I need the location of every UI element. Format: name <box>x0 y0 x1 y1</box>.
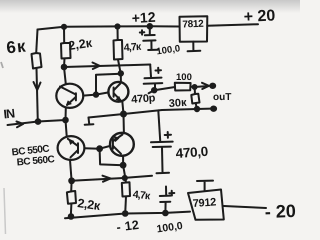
plus sign C1 <box>140 30 145 34</box>
regulator U1 7812 box <box>180 16 208 42</box>
wire OUT bottom line <box>89 109 212 118</box>
wire Q2 bottom lead <box>122 101 123 114</box>
wire IN lead <box>8 120 66 125</box>
svg-text:100,0: 100,0 <box>156 220 184 234</box>
regulator U2 7912 box <box>188 190 224 220</box>
wire node B to resistor 100 <box>154 87 175 90</box>
plus sign C3 <box>165 132 171 138</box>
hook stub left end <box>85 118 94 125</box>
wire Q1 bottom lead <box>65 108 67 120</box>
node 2.2K top on rail <box>62 25 66 29</box>
arrow right at OUT top <box>202 83 209 89</box>
node Q2/Q4 junction <box>121 112 126 117</box>
transistor Q3 circle <box>58 136 85 160</box>
svg-text:+12: +12 <box>131 9 156 26</box>
node A junction <box>62 65 67 70</box>
svg-text:4,7к: 4,7к <box>123 41 142 54</box>
transistor Q2 internals <box>114 84 121 91</box>
wire 100 to out node with arrow <box>191 86 195 88</box>
svg-text:+ 20: + 20 <box>243 7 276 26</box>
transistor Q4 internals <box>113 135 122 142</box>
wire Q3 bottom lead <box>70 160 72 181</box>
wire C2 bottom to node B <box>149 84 155 93</box>
wire rail B bottom <box>65 212 190 219</box>
capacitor C4 100,0 stub top <box>165 187 167 196</box>
resistor R5 2.2K bottom box <box>67 191 76 204</box>
wire -20 output <box>224 206 266 208</box>
resistor R6 4.7K bottom box <box>122 182 130 196</box>
wire node C folded down-right to Q4 emitter <box>100 149 123 166</box>
transistor Q2 circle <box>108 82 128 102</box>
arrow down on 6K wire <box>34 82 41 90</box>
wire C3 bottom lead with end bar <box>157 148 170 174</box>
svg-text:ouT: ouT <box>213 92 231 103</box>
wire 6K to IN node with arrow <box>37 69 38 122</box>
capacitor C4 plates <box>160 195 171 197</box>
plus sign C4 <box>169 191 174 196</box>
ground stub below 7812 <box>188 42 201 52</box>
svg-text:470,0: 470,0 <box>175 144 208 161</box>
resistor R1 6K box <box>32 53 42 69</box>
transistor Q3 internals <box>68 139 78 146</box>
arrow right on IN wire <box>17 122 24 128</box>
resistor R6 4.7K bottom lead <box>124 178 127 183</box>
arrow right on line A <box>103 176 111 182</box>
node Q1-Q2 base junction <box>94 92 98 96</box>
wire 4.7K to rail B <box>124 197 127 214</box>
terminal OUT top <box>210 84 215 88</box>
wire top rail <box>38 26 180 29</box>
wire node A to cap C2 with arrow <box>64 65 150 68</box>
node D junction on Q4 bottom lead <box>121 163 126 168</box>
wire Q3 top lead <box>66 120 67 136</box>
terminal OUT bottom <box>211 107 216 111</box>
wire V1 from rail down to 6K <box>36 30 37 54</box>
wire node C up to Q4 base <box>100 146 111 149</box>
wire 2.2K bottom lead top <box>70 181 72 192</box>
svg-text:30к: 30к <box>168 97 187 110</box>
node IN junction <box>36 119 41 124</box>
transistor Q1 circle <box>56 84 83 108</box>
left edge page line <box>4 188 6 234</box>
wire Q2 top lead <box>120 73 122 82</box>
node cap C1 top on rail <box>148 24 153 29</box>
wire line A with arrow <box>72 176 152 181</box>
wire C1 bottom with end bar <box>148 41 158 50</box>
wire 2.2K to node A <box>63 59 66 68</box>
resistor R3 100 box <box>175 83 191 91</box>
resistor R2 2.2K top box <box>61 43 71 59</box>
svg-text:6к: 6к <box>5 36 27 57</box>
capacitor C2 470p plates <box>145 77 162 80</box>
node rail B cap junction <box>163 211 168 216</box>
svg-text:7912: 7912 <box>192 196 216 210</box>
node Q2 top junction <box>119 71 123 75</box>
wire Q4 bottom lead to line A <box>123 156 125 178</box>
svg-text:- 20: - 20 <box>264 201 296 222</box>
node base junction Q1/Q3 <box>63 118 68 123</box>
transistor Q4 circle <box>110 133 134 156</box>
wire 4.7K to Q2 node <box>118 60 121 74</box>
plus sign C2 <box>156 68 162 73</box>
wire 4.7K top lead <box>115 24 119 28</box>
wire rail to 2.2K <box>63 27 65 43</box>
node C junction <box>97 146 102 151</box>
wire cap C2 top lead <box>149 65 152 77</box>
capacitor C3 470,0 plates <box>151 141 173 144</box>
wire 2.2K to rail B <box>70 204 73 217</box>
capacitor C1 plates <box>145 34 155 36</box>
svg-text:4,7к: 4,7к <box>132 189 151 203</box>
svg-text:470p: 470p <box>131 92 156 106</box>
left edge scan mark <box>1 62 3 68</box>
svg-text:- 12: - 12 <box>116 218 140 234</box>
wire 7812 output to +20 <box>207 24 258 26</box>
ground bar above 7912 <box>197 181 213 191</box>
node rail B middle junction <box>123 211 128 216</box>
wire L from Q1 base node up and right <box>96 74 121 95</box>
wire Q4 top lead <box>123 114 125 133</box>
capacitor C1 100,0 top lead <box>149 26 151 34</box>
wire C4 bottom to rail B <box>164 202 166 213</box>
node line A left junction <box>69 178 74 183</box>
resistor R4 4.7K top box <box>114 40 123 60</box>
wire Q3 base to node C <box>84 147 99 150</box>
wire Q1 base to node <box>83 92 108 95</box>
wire cap C3 top lead from OUT bottom line <box>158 110 160 140</box>
node B junction <box>152 88 156 92</box>
svg-text:100: 100 <box>176 72 192 83</box>
trimmer 30K lead down <box>194 87 196 94</box>
transistor Q1 internals <box>60 87 76 95</box>
svg-text:7812: 7812 <box>182 19 204 31</box>
node line A 4.7K junction <box>123 176 127 180</box>
trimmer lead to bottom line <box>196 104 197 110</box>
node rail B left junction <box>69 214 74 219</box>
arrow right on that wire <box>93 63 100 70</box>
trimmer 30K body <box>191 94 199 104</box>
wire node A to Q1 top <box>64 67 66 84</box>
